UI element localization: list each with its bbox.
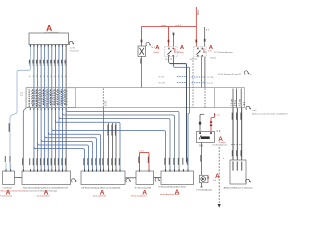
svg-text:8 C 28: 8 C 28	[207, 77, 214, 79]
svg-text:4.0 sw: 4.0 sw	[239, 99, 242, 106]
svg-text:an Zentralelektrik: an Zentralelektrik	[44, 31, 58, 34]
svg-text:Rel: Rel	[208, 51, 212, 53]
svg-text:K 75: K 75	[104, 100, 107, 106]
svg-text:A: A	[215, 173, 220, 180]
svg-text:V 5 Kraftstoffpumpe: V 5 Kraftstoffpumpe	[196, 189, 213, 192]
svg-text:30 51 Klemme 30 und 51: 30 51 Klemme 30 und 51	[218, 74, 242, 76]
svg-text:30 a: 30 a	[197, 10, 200, 15]
svg-text:Kraftstoffpumpe: Kraftstoffpumpe	[213, 143, 228, 146]
svg-text:Masseband, Motor/Getriebe: Masseband, Motor/Getriebe	[1, 190, 28, 193]
svg-text:8 C 28: 8 C 28	[159, 82, 166, 84]
svg-text:8 J 17: 8 J 17	[207, 83, 214, 85]
svg-text:an Karosserie im Motorraum lin: an Karosserie im Motorraum links geb.	[26, 190, 58, 193]
svg-text:2.5 sw: 2.5 sw	[230, 99, 233, 106]
svg-text:J 17 Kraftstoffpumpe: J 17 Kraftstoffpumpe	[214, 51, 234, 54]
svg-text:F 9: F 9	[217, 130, 221, 133]
svg-text:zum: zum	[252, 110, 256, 112]
svg-text:G 6: G 6	[199, 144, 204, 147]
svg-text:ro 4.0: ro 4.0	[176, 24, 182, 27]
svg-text:Relais: Relais	[178, 52, 183, 54]
svg-text:C 2: C 2	[21, 92, 24, 96]
svg-text:8 J 17: 8 J 17	[159, 77, 166, 79]
svg-text:Kondensator: Kondensator	[0, 195, 12, 198]
svg-text:zur Kl.: zur Kl.	[70, 48, 76, 50]
svg-text:hinter Armaturenbrett: hinter Armaturenbrett	[160, 193, 180, 196]
svg-text:2.5 ro: 2.5 ro	[234, 99, 237, 106]
svg-text:Zentralelektrik: Zentralelektrik	[37, 195, 51, 198]
svg-text:Anlasser und Generator und Bat: Anlasser und Generator und Batterie	[252, 113, 288, 116]
svg-text:Relais: Relais	[210, 57, 216, 59]
svg-text:24 C 28: 24 C 28	[190, 59, 198, 61]
svg-text:ro 1.0: ro 1.0	[214, 113, 220, 116]
svg-text:Sicherungshalter: Sicherungshalter	[131, 195, 147, 198]
svg-text:Relais: Relais	[154, 52, 159, 54]
svg-text:T6 Steckverbindung 6fach hinte: T6 Steckverbindung 6fach hinten	[158, 186, 187, 189]
svg-text:Zentralelektrik: Zentralelektrik	[93, 195, 107, 198]
svg-text:ro 2.5: ro 2.5	[139, 149, 145, 152]
svg-text:X Kontakt: X Kontakt	[70, 50, 79, 53]
svg-text:A Batterie B Anlasser C Gene: A Batterie B Anlasser C Generator	[224, 186, 253, 189]
svg-text:ro/sw: ro/sw	[161, 24, 167, 27]
